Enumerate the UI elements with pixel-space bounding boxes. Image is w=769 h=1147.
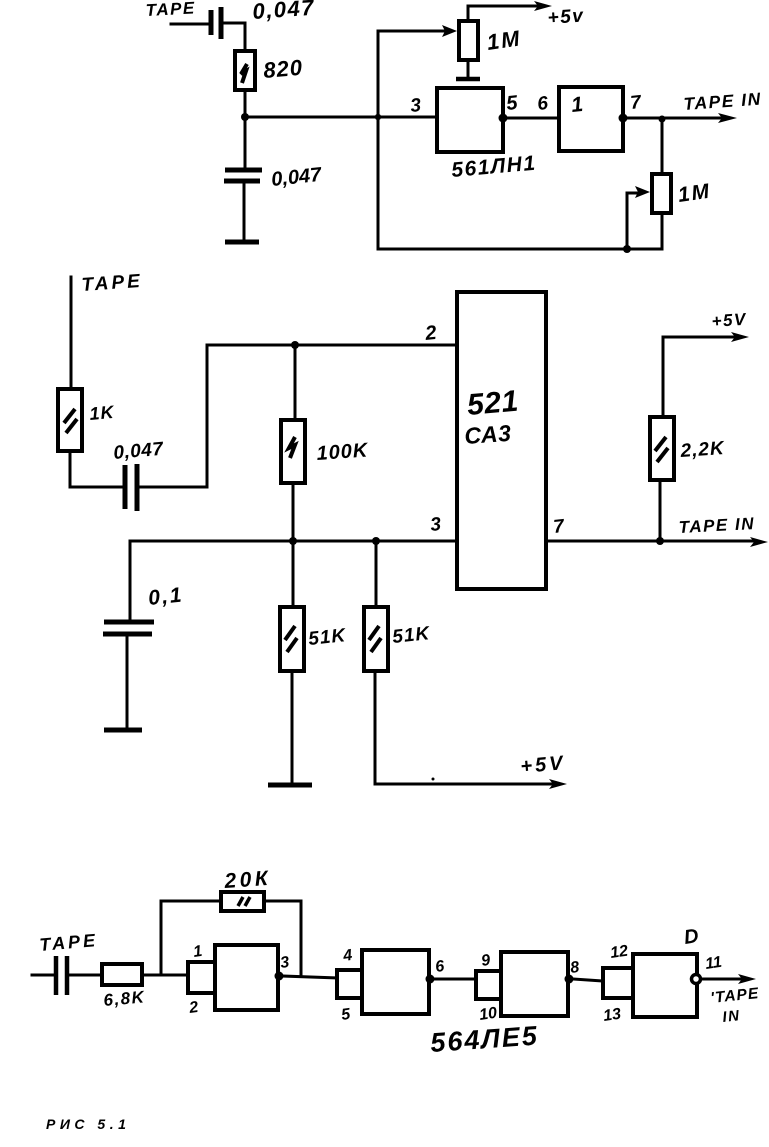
output bubble U3c [565,975,574,984]
node H junction [656,537,664,545]
label R10 value 20K [223,867,272,893]
pin 8 label [569,959,580,977]
svg-text:12: 12 [609,943,629,962]
label R2 value 1M [485,25,523,55]
wire R3 bottom lead [661,213,664,249]
wire lower rail to U2 pin3 [130,540,457,543]
resistor R7 51K [364,607,388,671]
wire node F to R6 [292,541,295,607]
svg-text:20К: 20К [223,867,272,893]
svg-text:РИС 5.1: РИС 5.1 [46,1116,130,1132]
svg-text:+5v: +5v [547,5,585,29]
pin 7 label [629,92,643,114]
wire node E to R5 [294,345,297,420]
wire rail down to C4 [129,541,132,620]
comparator U2 box [457,292,546,589]
wire R8 to +5V top right [663,337,737,417]
node TAPE label bottom [39,930,99,955]
arrow wiper into R2 [442,25,457,37]
output bubble U1b [619,114,628,123]
svg-text:10: 10 [478,1005,498,1024]
pin 5 label [505,92,519,115]
wire U2 pin7 to TAPE IN [546,540,757,543]
label U3 type 564LE5 [429,1020,539,1058]
pin 11 label [704,954,723,973]
output bubble U3d [692,975,701,984]
pin 3 label bottom [279,954,290,972]
svg-text:2: 2 [423,322,437,345]
label +5V top right [711,310,748,331]
gate U3d body [633,954,697,1017]
gate U3a input stub [188,962,215,993]
label +5v [547,5,585,29]
node D junction bottom feedback [623,245,631,253]
wire C3 to U2 pin2 [140,345,456,487]
node TAPE label top [145,0,196,20]
wire node C to R3 [661,119,664,174]
label R3 value 1M [676,180,712,207]
label R6 value 51K [307,625,347,650]
svg-text:1: 1 [570,93,584,117]
svg-text:51K: 51K [391,623,431,648]
pin 9 label [480,952,491,970]
svg-text:+5V: +5V [711,310,748,331]
label +5V middle bottom [520,752,567,778]
label U2 type SA3 [464,420,513,449]
wire feedback left vertical [378,31,452,249]
label C4 value 0,1 [147,583,184,610]
wire R5 to node F [292,483,295,541]
wire R4 to C3 [70,451,121,487]
svg-text:СА3: СА3 [464,420,513,449]
wire R9 to U3a input [142,974,188,977]
svg-text:IN: IN [722,1007,742,1026]
arrow +5V middle bottom [549,779,567,789]
arrow wiper into R3 [635,186,650,198]
ground GND2 [104,728,142,733]
wire TAPE to R4 [70,277,73,389]
label C3 value 0,047 [113,439,166,464]
arrow TAPE IN bottom [738,974,756,984]
wire C1 to R1 [224,23,245,51]
label R5 value 100K [316,439,370,465]
pin 4 label [341,947,353,965]
wire TAPE stub [32,974,53,977]
pin bar below R2 [456,77,480,82]
pin 2 label [187,999,199,1017]
wire node G to R7 [375,541,378,607]
pin 6 label [536,93,549,115]
wire U1b output to TAPE IN [627,117,726,120]
arrow +5v rail [534,1,552,11]
resistor R2 1M trimmer top [459,21,478,60]
resistor R8 2,2K [650,417,674,480]
node G junction [372,537,380,545]
node A junction [241,113,249,121]
wire U1a to U1b [507,117,558,120]
pin 7 label middle [552,516,566,538]
node F junction [289,537,297,545]
pin 6 label [434,958,445,976]
svg-text:6,8K: 6,8K [103,987,147,1010]
label R8 value 2,2K [679,438,726,462]
resistor R4 1K [58,389,82,451]
label U1 type 561LN1 [450,152,537,182]
gate U3a body [215,945,278,1010]
svg-text:1M: 1M [485,25,523,55]
resistor R3 1M trimmer bottom [652,174,671,213]
stray dot [432,778,435,781]
label D above U3d [683,925,700,949]
arrow +5V top right [731,332,749,342]
svg-text:0,1: 0,1 [147,583,184,610]
label TAPE IN middle [678,514,755,537]
svg-text:820: 820 [262,55,304,83]
node TAPE label middle [81,271,144,296]
gate U3d input stub [603,968,633,998]
label R9 value 6,8K [103,987,147,1010]
ground GND1 [225,240,259,245]
wire node A down to C2 [244,117,247,167]
pin 2 label [423,322,437,345]
label U2 type 521 [466,385,520,422]
wire C2 to ground [243,184,246,240]
svg-text:2,2K: 2,2K [679,438,726,462]
inverter U1b [559,87,623,151]
svg-text:TAPE IN: TAPE IN [678,514,755,537]
svg-text:0,047: 0,047 [113,439,166,464]
output bubble U3b [426,975,435,984]
capacitor C3 0,047 [125,464,137,511]
label TAPE IN top [683,89,762,114]
gate U3c input stub [476,971,501,999]
wire C4 to ground [126,637,129,728]
svg-text:100K: 100K [316,439,370,465]
wire U3d output to TAPE IN [702,978,745,981]
label C2 value 0,047 [270,164,323,191]
node B junction on feedback crossing [375,114,381,120]
pin 12 label [609,943,629,962]
svg-text:521: 521 [466,385,520,422]
wire R2 bottom lead [467,60,470,77]
wire feedback up to R10 [161,901,221,975]
wire U3b to U3c [434,978,476,981]
resistor R10 20K [221,892,264,911]
gate U3c body [501,952,568,1016]
svg-text:11: 11 [704,954,723,973]
label R4 value 1K [89,402,117,424]
pin 3 label [409,95,422,117]
svg-text:51K: 51K [307,625,347,650]
wire R3 wiper [627,193,642,249]
node E junction [291,341,299,349]
svg-text:13: 13 [602,1006,622,1025]
resistor R5 100K [281,420,305,483]
label C1 value 0,047 [252,0,316,24]
gate U3b body [362,950,429,1014]
output bubble U3a [275,972,284,981]
label IN bottom right [722,1007,742,1026]
inverter U1a [437,88,503,152]
svg-text:+5V: +5V [520,752,567,778]
pin 10 label [478,1005,498,1024]
wire node A to U1a pin3 [245,116,436,119]
wire R1 to node A [244,90,247,117]
wire R10 to U3a output [264,901,301,976]
capacitor C5 [56,956,67,995]
label TAPE bottom right [710,985,760,1007]
wire U3c to U3d [573,979,603,981]
label figure caption RIS 5.1 [46,1116,130,1132]
arrow TAPE IN middle [750,537,768,547]
label 1 inside U1b [570,93,584,117]
label R1 value 820 [262,55,304,83]
capacitor C2 0,047 [224,170,262,181]
gate U3b input stub [337,970,362,998]
pin 1 label [192,943,203,961]
svg-text:D: D [683,925,700,949]
arrow TAPE IN top [718,113,737,123]
node C junction output [659,116,666,123]
resistor R9 6,8K [102,964,142,985]
svg-text:1K: 1K [89,402,117,424]
wire R7 to +5V [375,671,555,784]
wire bottom feedback [378,248,662,251]
capacitor C4 0,1 [103,622,154,634]
svg-text:TAPE: TAPE [145,0,196,20]
ground GND3 [268,783,312,788]
resistor R6 51K [280,607,304,671]
wire C5 to R9 [70,974,102,977]
wire R6 to ground [291,671,294,783]
resistor R1 820 [235,51,255,90]
capacitor C1 0,047 [211,7,221,39]
wire U3a to U3b [283,976,337,978]
label R7 value 51K [391,623,431,648]
svg-text:1M: 1M [676,180,712,207]
wire node H to R8 [659,480,662,541]
wire R2 top to +5v rail [468,6,540,21]
svg-text:TAPE: TAPE [81,271,144,296]
pin 5 label [340,1006,352,1024]
wire TAPE to C1 [171,23,207,26]
output bubble U1a [499,114,508,123]
pin 13 label [602,1006,622,1025]
pin 3 label middle [429,514,442,536]
